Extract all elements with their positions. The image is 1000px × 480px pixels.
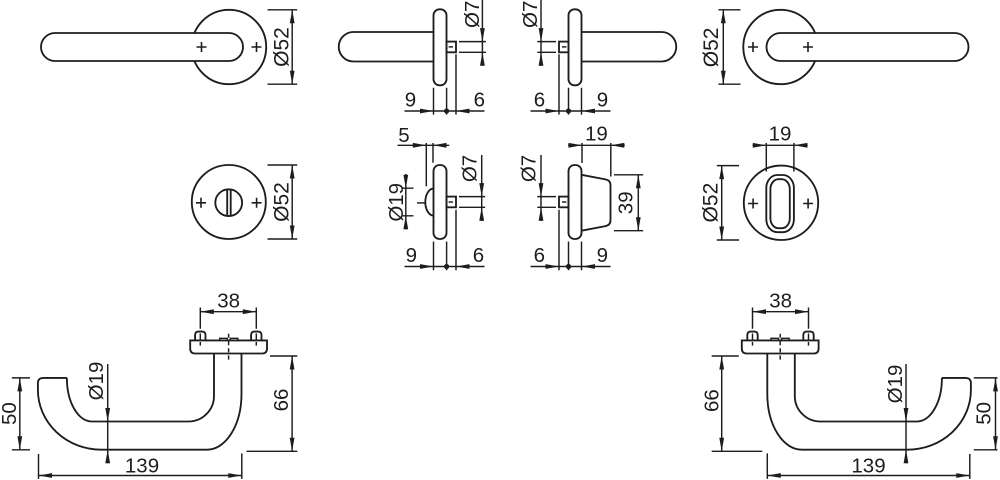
dimension 50 (right handle): extension ticks bbox=[974, 378, 998, 450]
dimension Ø52 (row2 right): dimension line bbox=[721, 166, 723, 240]
axis center dash left of dome bbox=[417, 202, 426, 204]
dimension 38 (screw spacing, left): dimension line bbox=[200, 311, 256, 313]
plate axis center dashes (right) bbox=[779, 334, 781, 360]
dimension 9 / 6 (row2 A): arrowheads and dot bbox=[420, 264, 470, 269]
svg-text:Ø19: Ø19 bbox=[385, 183, 408, 222]
fixing screw left bbox=[195, 332, 205, 341]
dimension 38 (screw spacing, right): dimension line bbox=[753, 311, 809, 313]
dimension 5: arrowheads bbox=[413, 143, 447, 148]
svg-text:5: 5 bbox=[398, 124, 409, 147]
WC rose side view (row2 col A) bbox=[417, 165, 456, 239]
plate axis center dashes bbox=[228, 334, 230, 360]
dimension 66 (left handle): dimension line bbox=[291, 356, 293, 451]
spindle notch on plate bbox=[220, 338, 238, 340]
dimension 50 (left handle): dimension line bbox=[19, 378, 21, 450]
svg-text:9: 9 bbox=[597, 244, 608, 267]
dimension Ø52 (top-left): extension ticks bbox=[268, 10, 298, 84]
svg-text:Ø7: Ø7 bbox=[458, 155, 481, 182]
svg-text:19: 19 bbox=[769, 122, 792, 145]
svg-text:66: 66 bbox=[700, 389, 723, 412]
dimension 39 (knob height): extension lines bbox=[614, 175, 643, 231]
svg-text:50: 50 bbox=[0, 402, 21, 425]
dimension 9 / 6 (row1 left side view): dimension line bbox=[405, 110, 485, 112]
fixing screw right bbox=[251, 332, 261, 341]
dimension Ø19 (grip, right): arrowheads bbox=[904, 408, 909, 463]
screw-hole crosses (WC rose right) bbox=[748, 199, 758, 209]
svg-text:Ø7: Ø7 bbox=[519, 1, 542, 28]
dimension 9 / 6 (row1 left side view): extension lines bbox=[434, 54, 457, 114]
dimension Ø52 (top-right): dimension line bbox=[722, 10, 724, 84]
dimension Ø7 (row2 A): arrowheads bbox=[479, 183, 484, 221]
svg-text:38: 38 bbox=[217, 289, 240, 312]
rose profile plate (row2 A) bbox=[434, 165, 447, 239]
svg-text:Ø52: Ø52 bbox=[271, 27, 294, 67]
svg-text:9: 9 bbox=[597, 88, 608, 111]
handle outer contour bbox=[38, 354, 242, 450]
screw axis extension lines (right) bbox=[808, 308, 810, 346]
dimension 139 (right handle): extension lines bbox=[767, 453, 970, 479]
dimension Ø7 (row2 A): extension lines bbox=[459, 197, 485, 208]
dimension 6 / 9 (row1 right side view): extension lines bbox=[559, 54, 582, 114]
dimension Ø7 (row2 A): dimension line bbox=[481, 155, 483, 221]
side view right (row1): mirrored rose profile with lever bbox=[559, 9, 676, 85]
rose profile plate (right) bbox=[569, 9, 582, 85]
dimension 50 (left handle): arrowheads bbox=[17, 378, 22, 450]
svg-text:Ø52: Ø52 bbox=[700, 28, 723, 68]
dimension Ø7 (row2 B): dimension line bbox=[540, 155, 542, 221]
dimension 6 / 9 (row2 B): arrowheads and dot bbox=[546, 264, 596, 269]
WC thumbturn side view (row2 col B) bbox=[559, 165, 611, 239]
dimension Ø7 (row1 right side view): dimension line bbox=[540, 0, 542, 66]
dimension 50 (left handle): extension ticks bbox=[12, 378, 30, 450]
dimension 6 / 9 (row1 right side view): dimension line bbox=[531, 110, 611, 112]
svg-text:38: 38 bbox=[769, 289, 792, 312]
oval thumbturn outer outline bbox=[766, 175, 794, 232]
screw axis extension line right bbox=[255, 308, 257, 346]
dimension Ø7 (row1 right side view): arrowheads bbox=[539, 28, 544, 66]
dimension 19 (oval turn width): arrowheads bbox=[753, 143, 808, 148]
svg-text:9: 9 bbox=[405, 88, 416, 111]
dimension Ø7 (row2 B): extension lines bbox=[537, 197, 556, 208]
oval thumbturn inner outline bbox=[770, 179, 789, 228]
dimension 39: arrowheads bbox=[636, 175, 641, 231]
dimension Ø19 (dome): dimension line bbox=[405, 174, 407, 230]
dimension 66 (right handle): extension ticks bbox=[712, 356, 763, 451]
rose (round rosette) front view, top-left bbox=[192, 10, 266, 84]
dimension 139 (right handle): dimension line bbox=[767, 475, 970, 477]
dimension Ø7 (row2 B): arrowheads bbox=[539, 183, 544, 221]
dimension 39: dimension line bbox=[637, 175, 639, 231]
svg-text:Ø19: Ø19 bbox=[85, 362, 108, 401]
dimension 50 (right handle): dimension line bbox=[995, 378, 997, 450]
dimension 19 (oval turn width): extension lines bbox=[766, 143, 794, 172]
spindle stub (right) bbox=[559, 42, 569, 53]
dimension 66 (left handle): extension ticks bbox=[247, 356, 298, 451]
dimension 38 (left): arrowheads bbox=[200, 309, 256, 314]
WC rose front view (middle-left) bbox=[192, 165, 266, 239]
dimension 5: dimension line bbox=[398, 144, 450, 146]
screw-hole crosses top-right bbox=[803, 42, 813, 52]
dimension 6 / 9 (row2 B): dimension line bbox=[531, 266, 611, 268]
dimension 6 / 9 (row2 B): extension lines bbox=[559, 210, 582, 270]
dimension Ø7 (row1 left side view): arrowheads bbox=[480, 28, 485, 66]
dimension Ø19 (dome): arrowheads bbox=[403, 175, 408, 230]
dimension Ø7 (row1 left side view): dimension line bbox=[481, 0, 483, 66]
spindle center dash bbox=[449, 46, 453, 48]
svg-text:6: 6 bbox=[534, 244, 545, 267]
lever handle + rose front view, top-right (mirrored) bbox=[743, 10, 968, 84]
rose plate top view (right) bbox=[742, 340, 819, 353]
fixing screw right slot bbox=[255, 333, 257, 340]
spindle stub (row2 B) bbox=[559, 197, 569, 208]
dimension 139 (left handle): arrowheads bbox=[39, 473, 242, 478]
dimension Ø19 (grip, left): arrowheads bbox=[105, 408, 110, 463]
dimension Ø52 (row2 right): extension ticks bbox=[717, 166, 739, 240]
emergency release button (inner circle) bbox=[215, 189, 242, 216]
svg-text:6: 6 bbox=[534, 88, 545, 111]
dimension Ø52 (top-left): dimension line bbox=[291, 10, 293, 84]
rose plate top view bbox=[190, 340, 267, 353]
handle top view (bottom-left) bbox=[38, 308, 267, 450]
spindle center dash (row2 A) bbox=[449, 201, 453, 203]
lever top-right bbox=[767, 33, 969, 61]
lever profile bbox=[339, 32, 434, 62]
dimension 66 (right handle): dimension line bbox=[721, 356, 723, 451]
dimension Ø52 (top-left): arrowheads bbox=[290, 10, 295, 84]
svg-text:139: 139 bbox=[851, 454, 885, 477]
fixing screw left slot bbox=[199, 333, 201, 340]
lever profile (right) bbox=[582, 32, 677, 62]
screw-hole cross left (top-left rose) bbox=[197, 42, 207, 52]
dimension 6 / 9 (row1 right side view): arrowheads and junction dot bbox=[546, 109, 596, 114]
svg-text:Ø19: Ø19 bbox=[884, 365, 907, 404]
handle inner contour (neck to grip to end) bbox=[67, 354, 214, 422]
dimension Ø52 (row2 left): extension ticks bbox=[268, 165, 298, 239]
fixing screw (right handle, inner) bbox=[747, 332, 757, 341]
dimension 50 (right handle): arrowheads bbox=[993, 378, 998, 450]
dimension 5 (dome protrusion): extension lines bbox=[426, 143, 433, 186]
dimension Ø52 (top-right): arrowheads bbox=[721, 10, 726, 84]
dimension Ø19 (grip, right): dimension line bbox=[905, 364, 907, 463]
spindle stub (row2 A) bbox=[447, 197, 457, 208]
dimension Ø52 (top-right): extension ticks bbox=[718, 10, 740, 84]
dimension Ø52 (row2 left): dimension line bbox=[291, 165, 293, 239]
fixing screw (right handle, outer) bbox=[803, 332, 813, 341]
coin slot lines bbox=[227, 190, 231, 216]
svg-text:6: 6 bbox=[474, 88, 485, 111]
handle inner contour (right) bbox=[795, 354, 942, 422]
release button dome bbox=[425, 189, 433, 216]
svg-text:Ø52: Ø52 bbox=[271, 182, 294, 222]
svg-text:19: 19 bbox=[585, 122, 608, 145]
dimension 139 (right handle): arrowheads bbox=[767, 473, 970, 478]
dimension 139 (left handle): dimension line bbox=[39, 475, 242, 477]
svg-text:9: 9 bbox=[406, 244, 417, 267]
lever handle front view, top-left bbox=[41, 33, 243, 61]
dimension Ø19 (dome): extension lines bbox=[402, 188, 414, 216]
spindle notch on plate (right) bbox=[771, 338, 789, 340]
dimension Ø19 (grip, left): dimension line bbox=[107, 364, 109, 463]
screw-hole cross right (top-left rose) bbox=[252, 42, 262, 52]
svg-text:66: 66 bbox=[270, 389, 293, 412]
thumbturn knob profile bbox=[582, 175, 611, 231]
svg-text:50: 50 bbox=[972, 402, 995, 425]
WC rose with oval thumbturn front view (middle-right) bbox=[744, 166, 818, 240]
dimension Ø52 (row2 right): arrowheads bbox=[719, 166, 724, 240]
handle outer contour (right) bbox=[767, 354, 971, 450]
screw axis extension line left bbox=[199, 308, 201, 346]
dimension 19 (knob depth): extension lines bbox=[582, 143, 611, 177]
dimension 9 / 6 (row2 A): extension lines bbox=[434, 210, 457, 270]
dimension Ø7 (row1 right side view): extension lines bbox=[537, 42, 556, 53]
screw-hole crosses (WC rose left) bbox=[196, 198, 206, 208]
svg-text:6: 6 bbox=[473, 244, 484, 267]
side view left (row1): rose profile bbox=[339, 9, 456, 85]
dimension 19 (knob depth): arrowheads bbox=[569, 143, 625, 148]
spindle stub bbox=[447, 42, 457, 53]
spindle center dash (right) bbox=[562, 46, 566, 48]
dimension Ø52 (row2 left): arrowheads bbox=[290, 165, 295, 239]
dimension Ø7 (row1 left side view): extension lines bbox=[459, 42, 486, 53]
dimension 38 (right): arrowheads bbox=[753, 309, 809, 314]
spindle center dash (row2 B) bbox=[562, 201, 566, 203]
dimension 66 (left handle): arrowheads bbox=[290, 356, 295, 451]
dimension 139 (left handle): extension lines bbox=[39, 453, 242, 479]
rose profile plate bbox=[434, 9, 447, 85]
svg-text:Ø7: Ø7 bbox=[517, 155, 540, 182]
dimension 9 / 6 (row2 A): dimension line bbox=[405, 266, 485, 268]
rose profile plate (row2 B) bbox=[569, 165, 582, 239]
svg-text:139: 139 bbox=[125, 454, 159, 477]
dimension 19 (oval turn width): dimension line bbox=[753, 144, 808, 146]
rose front view top-right bbox=[743, 10, 817, 84]
dimension 66 (right handle): arrowheads bbox=[719, 356, 724, 451]
dimension 19 (knob depth): dimension line bbox=[568, 144, 625, 146]
handle top view (bottom-right, mirrored) bbox=[742, 308, 971, 450]
svg-text:Ø52: Ø52 bbox=[700, 183, 723, 223]
svg-text:Ø7: Ø7 bbox=[461, 1, 484, 28]
dimension 9 / 6 (row1 left side view): arrowheads and junction dot bbox=[420, 109, 470, 114]
svg-text:39: 39 bbox=[614, 191, 637, 214]
